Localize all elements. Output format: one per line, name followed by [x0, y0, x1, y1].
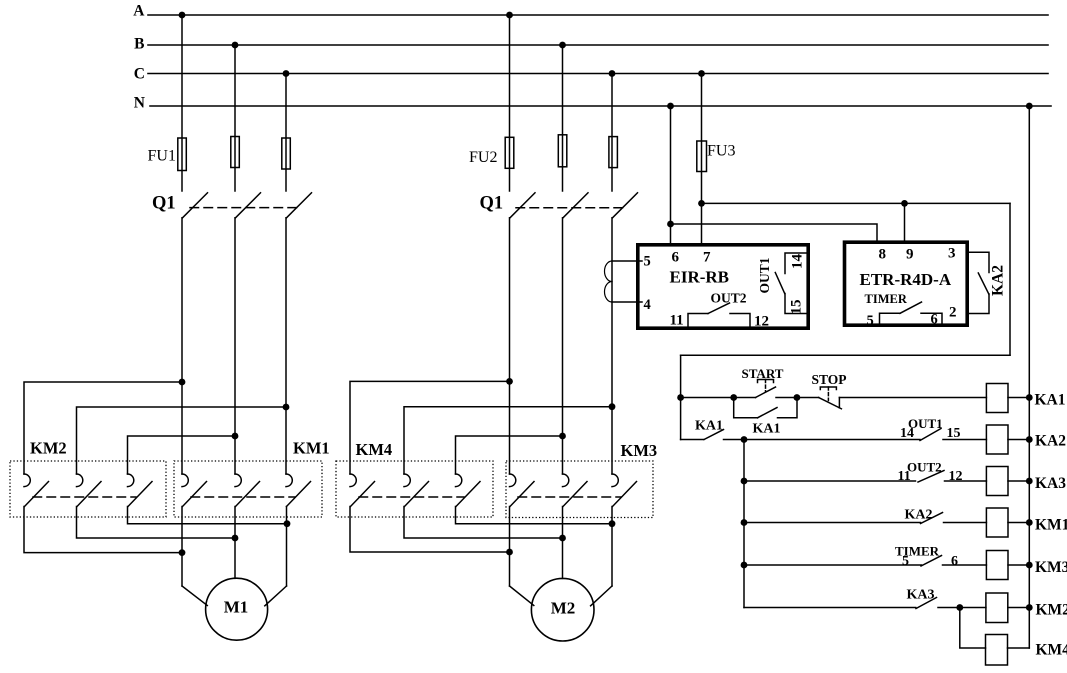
wire KM4 out3 to motor lead W	[456, 507, 613, 524]
contactor KM2 contact 2	[77, 474, 102, 507]
svg-text:KA2: KA2	[1035, 433, 1066, 450]
wire N drop x670 to EIR pin 6	[670, 106, 672, 244]
fuse FU1 pole A	[178, 138, 187, 171]
svg-text:KM3: KM3	[621, 441, 658, 460]
svg-text:14: 14	[900, 426, 914, 441]
rung 1 wire to STOP	[797, 397, 819, 399]
wire phase B drop x562	[562, 45, 564, 191]
fuse FU1 pole C	[282, 138, 291, 169]
contactor KM2 contact 3	[128, 474, 153, 507]
wire KM2 tap phase A y382	[24, 382, 182, 474]
wire ETR pin 9 drop	[904, 203, 906, 240]
junction C x701	[698, 70, 705, 77]
svg-text:Q1: Q1	[480, 194, 504, 214]
contactor KM3 contact 3	[612, 474, 637, 507]
svg-text:FU1: FU1	[148, 148, 176, 165]
junction M1 lead V	[232, 535, 239, 542]
wire KM1 out1 down	[181, 507, 183, 587]
ladder top rail	[681, 354, 1010, 356]
svg-text:KA2: KA2	[905, 508, 933, 523]
junction pin9 branch	[901, 200, 908, 207]
KM4 link dashed	[359, 496, 464, 498]
contactor KM2 box	[10, 461, 166, 517]
rung 2 wire to coil	[943, 439, 986, 441]
motor M2	[531, 578, 594, 641]
relay contact KA1 on left rail	[681, 430, 724, 440]
wire M1 lead right diagonal	[265, 586, 287, 606]
contactor KM1 box	[174, 461, 322, 517]
junction B x562	[559, 42, 566, 49]
fuse FU2 pole A	[505, 137, 514, 168]
wire phase A drop x509	[509, 15, 511, 191]
rung 1 wire to coil	[839, 397, 986, 399]
junction B x235	[232, 42, 239, 49]
svg-text:3: 3	[948, 246, 956, 262]
wire KM4 tap phase A y381	[350, 381, 510, 474]
junction rung1 self-hold right	[794, 394, 801, 401]
breaker Q1 pole 1 blade	[183, 193, 208, 218]
wire KM1 out2 down	[234, 507, 236, 579]
wire KM3 out3 down	[611, 507, 613, 587]
KM4 wire to rail	[1008, 647, 1030, 649]
coil KA1	[986, 384, 1008, 413]
contactor KM3 contact 1	[510, 474, 535, 507]
svg-text:STOP: STOP	[812, 372, 847, 387]
EIR OUT2 contact 11-12	[688, 303, 750, 328]
wire phase B drop x235	[234, 45, 236, 191]
relay contact KA2 at ETR pins 3-2	[967, 252, 989, 313]
bus line C	[148, 73, 1048, 75]
rung 5 wire to coil	[943, 564, 987, 566]
breaker Q1b pole 1 blade	[510, 193, 535, 218]
junction aux rail rung4	[741, 519, 748, 526]
svg-text:ETR-R4D-A: ETR-R4D-A	[860, 270, 952, 289]
timer contact 5-6 rung 5	[921, 556, 942, 567]
contactor KM2 contact 1	[24, 474, 49, 507]
junction M2 lead U	[506, 549, 513, 556]
junction KM4 tap A	[506, 378, 513, 385]
wire x1010 drop to ladder top	[1009, 203, 1011, 355]
svg-text:C: C	[134, 65, 145, 82]
coil KM2	[986, 593, 1008, 623]
svg-text:9: 9	[906, 247, 914, 263]
junction N x1029	[1026, 103, 1033, 110]
svg-text:KM1: KM1	[293, 439, 330, 458]
svg-text:KM4: KM4	[1036, 642, 1067, 659]
breaker Q1 pole 2 blade	[236, 193, 261, 218]
svg-text:N: N	[134, 95, 145, 112]
junction C x286	[283, 70, 290, 77]
junction M2 lead V	[559, 535, 566, 542]
svg-text:KM2: KM2	[30, 439, 67, 458]
relay ETR-R4D-A box U2	[845, 242, 968, 325]
wire x182 Q1 to KM1	[181, 218, 183, 474]
svg-text:KM2: KM2	[1036, 602, 1067, 619]
wire phase C drop x286	[285, 74, 287, 192]
contactor KM1 contact 2	[235, 474, 260, 507]
svg-text:M2: M2	[551, 599, 576, 618]
wire y203 pin7 node to right drop	[702, 202, 1011, 204]
svg-text:KA3: KA3	[907, 588, 935, 603]
breaker Q1b link dashed	[516, 207, 623, 209]
svg-text:TIMER: TIMER	[865, 292, 908, 306]
rung 4 wire to coil	[944, 522, 987, 524]
junction rail rung5	[1026, 562, 1033, 569]
bus line A	[148, 14, 1048, 16]
rung 3 wire to rail	[1008, 480, 1029, 482]
svg-text:OUT1: OUT1	[757, 257, 772, 293]
breaker Q1b pole 3 blade	[613, 193, 638, 218]
junction KM4 branch	[956, 604, 963, 611]
junction C x612	[609, 70, 616, 77]
pushbutton STOP NC	[819, 387, 842, 409]
svg-text:KA1: KA1	[753, 422, 781, 437]
svg-text:6: 6	[951, 554, 958, 569]
svg-text:KM3: KM3	[1035, 559, 1067, 576]
rung 4 wire left	[744, 522, 921, 524]
EIR pin 4 stub	[612, 301, 642, 303]
wire KM3 out2 down	[562, 507, 564, 579]
coil KM3	[986, 551, 1008, 580]
fuse FU1 pole B	[231, 137, 240, 168]
svg-text:FU3: FU3	[707, 143, 735, 160]
junction M2 lead W	[609, 520, 616, 527]
wire KM3 out1 down	[509, 507, 511, 587]
coil KA3	[986, 467, 1008, 496]
KM3 link dashed	[518, 496, 621, 498]
rung 3 wire to coil	[945, 480, 987, 482]
svg-text:M1: M1	[224, 598, 249, 617]
wire KM2 tap phase C y407	[77, 407, 287, 474]
svg-text:OUT2: OUT2	[907, 460, 942, 475]
EIR sensing coil arc 1	[605, 261, 612, 282]
svg-text:KA3: KA3	[1035, 475, 1066, 492]
coil KM1	[986, 508, 1008, 537]
svg-text:5: 5	[867, 313, 874, 329]
wire x235 Q1 to KM1	[234, 218, 236, 474]
svg-text:5: 5	[644, 254, 651, 270]
svg-text:12: 12	[754, 314, 769, 330]
wire phase C drop x612	[611, 74, 613, 192]
rung 6 wire to coil	[938, 607, 986, 609]
svg-text:11: 11	[898, 469, 911, 484]
rung 3 wire left	[744, 480, 916, 482]
svg-text:6: 6	[931, 312, 938, 328]
svg-text:KA2: KA2	[990, 265, 1007, 296]
rung 1 wire left	[681, 397, 756, 399]
svg-text:Q1: Q1	[152, 194, 176, 214]
relay contact OUT2 11-12	[918, 471, 944, 483]
aux rail x744	[743, 440, 745, 608]
KM4 branch wire	[960, 608, 986, 649]
rung 4 wire to rail	[1008, 522, 1029, 524]
coil KM4	[986, 635, 1008, 666]
junction aux rail rung2	[741, 436, 748, 443]
EIR OUT1 contact 14-15	[775, 253, 806, 314]
ladder left rail	[680, 355, 682, 439]
svg-text:KM1: KM1	[1035, 517, 1067, 534]
KM1 link dashed	[191, 496, 295, 498]
junction A x182	[179, 12, 186, 19]
wire y224 N drop to ETR pin 8	[671, 224, 878, 241]
right rail N x1029	[1028, 106, 1030, 648]
wire KM4 tap phase C y407	[404, 407, 612, 474]
coil KA2	[986, 425, 1008, 454]
junction KM4 tap B	[559, 433, 566, 440]
junction A x509	[506, 12, 513, 19]
svg-text:KA1: KA1	[1035, 392, 1066, 409]
svg-text:14: 14	[790, 254, 806, 270]
junction aux rail rung5	[741, 562, 748, 569]
contactor KM1 contact 3	[286, 474, 311, 507]
junction rail rung2	[1026, 436, 1033, 443]
relay contact KA2 rung 4	[921, 513, 943, 524]
fuse FU2 pole C	[609, 137, 618, 168]
relay contact KA3 rung 6	[916, 598, 937, 609]
svg-text:5: 5	[902, 554, 909, 569]
junction rail rung1	[1026, 394, 1033, 401]
svg-text:6: 6	[672, 250, 680, 266]
junction rung1 self-hold left	[730, 394, 737, 401]
wire KM1 out3 down	[286, 507, 288, 587]
wire KM2 tap phase B y436	[128, 436, 236, 474]
junction rung1 left rail	[677, 394, 684, 401]
svg-text:15: 15	[789, 300, 805, 315]
junction M1 lead W	[284, 520, 291, 527]
rung 1 wire to rail	[1008, 397, 1029, 399]
bus line B	[148, 44, 1048, 46]
junction pin7 branch	[698, 200, 705, 207]
wire M1 lead left diagonal	[182, 586, 207, 606]
svg-text:15: 15	[947, 426, 961, 441]
svg-text:KA1: KA1	[695, 419, 723, 434]
svg-text:12: 12	[949, 469, 963, 484]
fuse FU2 pole B	[558, 135, 567, 167]
breaker Q1 link dashed	[190, 207, 297, 209]
wire x562 Q1 to KM3	[562, 218, 564, 474]
svg-text:A: A	[133, 3, 145, 20]
wire M2 lead left diagonal	[510, 586, 534, 606]
wire KM2 out3 to motor lead W	[128, 507, 288, 524]
junction rail rung3	[1026, 478, 1033, 485]
svg-text:START: START	[742, 366, 784, 381]
svg-text:7: 7	[703, 250, 711, 266]
wire phase A drop x182	[181, 15, 183, 191]
junction rail rung6	[1026, 604, 1033, 611]
wire x612 Q1 to KM3 through EIR coil	[611, 218, 613, 474]
wire KM2 out1 to motor lead U	[24, 507, 182, 553]
contactor KM3 contact 2	[563, 474, 588, 507]
svg-text:8: 8	[879, 247, 887, 263]
junction KM4 tap C	[609, 403, 616, 410]
wire x509 Q1 to KM3	[509, 218, 511, 474]
contactor KM3 box	[506, 461, 653, 518]
relay EIR-RB box U1	[638, 245, 808, 328]
contactor KM4 contact 1	[350, 474, 375, 507]
wire KM4 out2 to motor lead V	[404, 507, 563, 539]
KM2 link dashed	[33, 496, 136, 498]
EIR sensing coil arc 2	[605, 282, 612, 303]
ETR timer contact 5-6	[880, 302, 943, 325]
fuse FU3	[697, 141, 707, 172]
rung 1 wire mid	[776, 397, 797, 399]
bus line N	[150, 105, 1051, 107]
junction aux rail rung3	[741, 478, 748, 485]
wire KM4 tap phase B y436	[456, 436, 563, 474]
junction rail rung4	[1026, 519, 1033, 526]
rung 5 wire to rail	[1008, 564, 1029, 566]
svg-text:11: 11	[670, 313, 684, 329]
svg-text:KM4: KM4	[356, 440, 393, 459]
wire M2 lead right diagonal	[591, 586, 612, 606]
rung 2 wire to rail	[1008, 439, 1029, 441]
svg-text:B: B	[134, 36, 144, 53]
junction KM2 tap B	[232, 433, 239, 440]
wire x286 Q1 to KM1	[285, 218, 287, 474]
wire C drop x701 through FU3 to EIR pin 7	[701, 74, 703, 244]
relay contact OUT1 14-15	[920, 429, 941, 441]
rung 2 wire left	[724, 439, 921, 441]
self-hold branch KA1 contact	[734, 398, 797, 418]
junction N x670	[667, 103, 674, 110]
breaker Q1 pole 3 blade	[287, 193, 312, 218]
rung 6 wire left	[744, 607, 916, 609]
svg-text:4: 4	[644, 297, 651, 313]
rung 6 wire to rail	[1008, 607, 1030, 609]
contactor KM1 contact 1	[182, 474, 207, 507]
motor M1	[206, 578, 268, 640]
junction pin8 branch	[667, 221, 674, 228]
contactor KM4 contact 2	[404, 474, 429, 507]
junction KM2 tap C	[283, 404, 290, 411]
svg-text:FU2: FU2	[469, 149, 497, 166]
contactor KM4 contact 3	[456, 474, 481, 507]
junction KM2 tap A	[179, 379, 186, 386]
svg-text:EIR-RB: EIR-RB	[670, 268, 730, 287]
breaker Q1b pole 2 blade	[563, 193, 588, 218]
wire KM2 out2 to motor lead V	[77, 507, 236, 539]
contactor KM4 box	[336, 461, 493, 517]
junction M1 lead U	[179, 549, 186, 556]
pushbutton START	[756, 380, 776, 398]
svg-text:2: 2	[949, 305, 957, 321]
wire KM4 out1 to motor lead U	[350, 507, 510, 553]
EIR pin 5 stub	[612, 260, 642, 262]
rung 5 wire left	[744, 564, 922, 566]
